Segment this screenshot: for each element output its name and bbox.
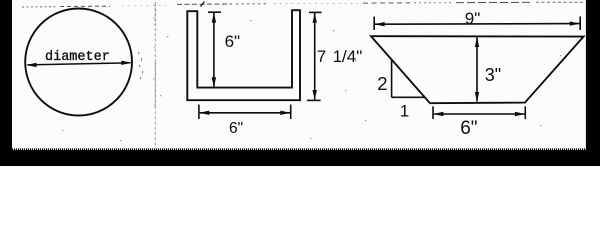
svg-text:9": 9": [465, 9, 481, 28]
svg-text:3": 3": [485, 65, 501, 85]
svg-text:6": 6": [225, 32, 241, 51]
svg-text:6": 6": [229, 120, 243, 137]
svg-text:1: 1: [400, 102, 409, 121]
svg-text:diameter: diameter: [45, 50, 110, 65]
svg-text:2: 2: [377, 73, 387, 94]
svg-text:7: 7: [317, 47, 326, 66]
svg-text:6": 6": [460, 118, 477, 139]
svg-text:1/4": 1/4": [333, 47, 363, 66]
